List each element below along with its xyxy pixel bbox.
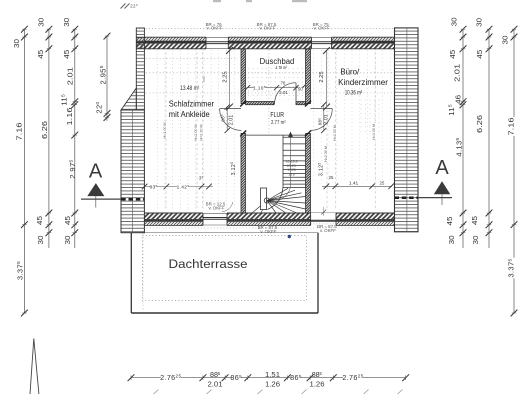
svg-text:30: 30 bbox=[475, 18, 484, 27]
svg-text:45: 45 bbox=[448, 50, 457, 59]
svg-text:H=2.30 M: H=2.30 M bbox=[324, 146, 328, 162]
svg-text:30: 30 bbox=[471, 236, 480, 245]
svg-text:45: 45 bbox=[36, 50, 45, 59]
svg-text:v. OKFF: v. OKFF bbox=[260, 229, 276, 234]
svg-text:Duschbad: Duschbad bbox=[260, 56, 295, 66]
svg-text:mit Ankleide: mit Ankleide bbox=[169, 109, 210, 119]
svg-text:Büro/: Büro/ bbox=[340, 67, 359, 77]
svg-text:FLUR: FLUR bbox=[270, 112, 284, 119]
svg-text:2.01: 2.01 bbox=[452, 64, 461, 82]
svg-text:H=2.00 M: H=2.00 M bbox=[194, 124, 198, 140]
svg-text:7.16: 7.16 bbox=[507, 118, 516, 136]
svg-text:4.79 m²: 4.79 m² bbox=[276, 65, 288, 71]
svg-text:A: A bbox=[435, 157, 449, 179]
svg-text:7.16: 7.16 bbox=[15, 123, 24, 141]
svg-text:45: 45 bbox=[475, 50, 484, 59]
svg-text:13.48 m²: 13.48 m² bbox=[180, 85, 200, 92]
svg-text:50: 50 bbox=[298, 87, 303, 92]
svg-text:45: 45 bbox=[63, 216, 72, 225]
svg-text:45: 45 bbox=[62, 50, 71, 59]
svg-text:88: 88 bbox=[312, 370, 320, 379]
svg-text:2.01: 2.01 bbox=[229, 115, 235, 126]
svg-text:2.77 m²: 2.77 m² bbox=[271, 120, 286, 126]
svg-text:1.26: 1.26 bbox=[265, 379, 280, 388]
svg-text:2.01: 2.01 bbox=[279, 90, 288, 95]
svg-text:30: 30 bbox=[12, 39, 21, 48]
svg-text:1.26: 1.26 bbox=[310, 379, 325, 388]
svg-text:2.25: 2.25 bbox=[222, 71, 228, 82]
svg-text:30: 30 bbox=[63, 236, 72, 245]
svg-text:2.01: 2.01 bbox=[324, 114, 330, 125]
svg-text:v. OKFF: v. OKFF bbox=[259, 26, 275, 31]
svg-text:H=1.00 M: H=1.00 M bbox=[372, 124, 376, 140]
svg-text:2.01: 2.01 bbox=[66, 67, 75, 85]
svg-text:2.01: 2.01 bbox=[208, 379, 223, 388]
svg-text:30: 30 bbox=[37, 18, 46, 27]
svg-text:25: 25 bbox=[329, 175, 334, 180]
svg-text:Kinderzimmer: Kinderzimmer bbox=[338, 77, 388, 87]
svg-text:v. OKFF: v. OKFF bbox=[320, 228, 336, 233]
svg-text:A: A bbox=[89, 161, 103, 183]
svg-text:1.16: 1.16 bbox=[65, 108, 74, 126]
svg-text:10.36 m²: 10.36 m² bbox=[345, 91, 363, 97]
svg-text:2.25: 2.25 bbox=[319, 71, 325, 82]
svg-text:30: 30 bbox=[447, 235, 456, 244]
svg-text:1.51: 1.51 bbox=[265, 370, 280, 379]
svg-text:25: 25 bbox=[380, 181, 385, 186]
svg-text:6.26: 6.26 bbox=[475, 115, 484, 133]
svg-text:v. OKFF: v. OKFF bbox=[208, 205, 224, 210]
svg-text:v. OKFF: v. OKFF bbox=[314, 26, 330, 31]
svg-text:H=1.00 M: H=1.00 M bbox=[163, 122, 167, 138]
svg-text:30: 30 bbox=[62, 18, 71, 27]
svg-text:45: 45 bbox=[445, 217, 454, 226]
svg-text:76: 76 bbox=[281, 80, 286, 85]
svg-text:30: 30 bbox=[36, 236, 45, 245]
svg-text:45: 45 bbox=[470, 216, 479, 225]
svg-text:30: 30 bbox=[501, 36, 510, 45]
svg-text:Schlafzimmer: Schlafzimmer bbox=[169, 99, 214, 109]
svg-text:18.8: 18.8 bbox=[288, 172, 295, 176]
svg-text:Dachterrasse: Dachterrasse bbox=[169, 257, 248, 271]
svg-text:v. OKFF: v. OKFF bbox=[207, 26, 223, 31]
svg-text:46: 46 bbox=[454, 95, 463, 104]
svg-text:H=2.00 M: H=2.00 M bbox=[333, 125, 337, 141]
svg-text:30: 30 bbox=[450, 17, 459, 26]
svg-text:6.26: 6.26 bbox=[40, 121, 49, 139]
svg-text:45: 45 bbox=[35, 216, 44, 225]
svg-text:1.41: 1.41 bbox=[349, 181, 359, 187]
svg-text:H=2.20 M: H=2.20 M bbox=[200, 124, 204, 140]
svg-text:88: 88 bbox=[210, 370, 218, 379]
